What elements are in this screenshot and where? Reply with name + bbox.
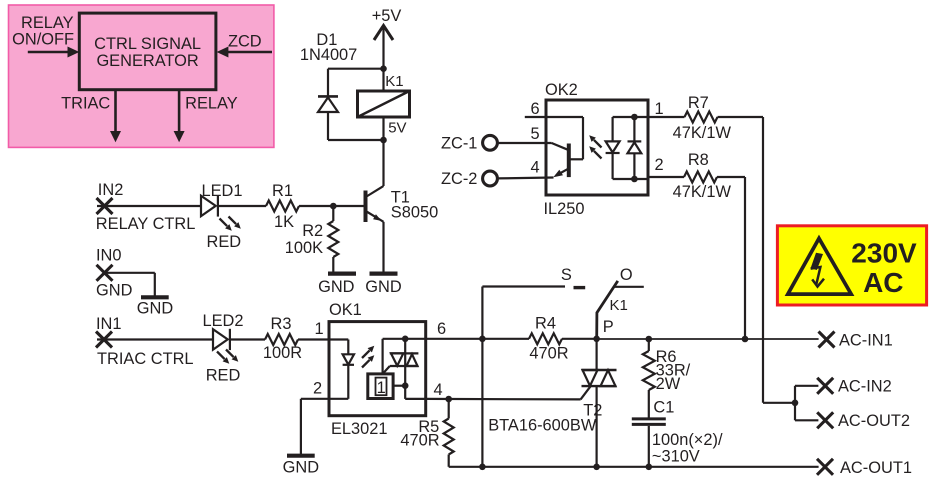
svg-text:O: O [620,266,633,284]
svg-text:230V: 230V [851,238,917,269]
svg-text:2: 2 [655,156,664,174]
svg-text:RED: RED [206,233,241,251]
svg-text:P: P [603,318,614,336]
svg-text:GND: GND [365,278,402,296]
svg-text:LED1: LED1 [201,182,242,200]
svg-text:AC-IN2: AC-IN2 [838,377,892,395]
svg-text:GND: GND [137,300,174,318]
svg-text:LED2: LED2 [202,312,243,330]
svg-text:~310V: ~310V [652,447,700,465]
svg-text:IN2: IN2 [98,181,124,199]
svg-text:ZC-2: ZC-2 [441,170,477,188]
svg-text:EL3021: EL3021 [331,420,388,438]
svg-text:S8050: S8050 [391,203,438,221]
svg-text:5: 5 [530,125,539,143]
svg-text:R1: R1 [272,182,293,200]
svg-text:AC-OUT1: AC-OUT1 [840,459,912,477]
svg-text:TRIAC CTRL: TRIAC CTRL [97,350,194,368]
svg-text:100K: 100K [285,239,323,257]
svg-text:R3: R3 [271,315,292,333]
svg-text:6: 6 [437,320,446,338]
svg-text:1K: 1K [274,213,294,231]
svg-text:K1: K1 [610,297,628,314]
svg-text:GENERATOR: GENERATOR [96,52,198,70]
svg-text:R8: R8 [688,151,709,169]
svg-text:GND: GND [318,278,355,296]
svg-text:ON/OFF: ON/OFF [12,31,74,49]
svg-text:2W: 2W [656,375,681,393]
svg-text:5V: 5V [388,119,406,136]
svg-text:BTA16-600BW: BTA16-600BW [488,417,597,435]
svg-text:RELAY: RELAY [185,94,238,112]
svg-text:OK2: OK2 [545,81,578,99]
svg-text:RELAY CTRL: RELAY CTRL [96,215,196,233]
svg-text:470R: 470R [529,345,568,363]
svg-text:4: 4 [530,159,539,177]
svg-text:RED: RED [206,367,241,385]
svg-text:47K/1W: 47K/1W [673,183,732,201]
svg-text:IN1: IN1 [96,315,122,333]
svg-text:C1: C1 [653,399,674,417]
svg-text:IN0: IN0 [96,246,122,264]
svg-text:1: 1 [314,320,323,338]
svg-text:47K/1W: 47K/1W [673,124,732,142]
svg-text:4: 4 [433,381,442,399]
svg-text:OK1: OK1 [329,301,362,319]
svg-text:TRIAC: TRIAC [61,94,110,112]
svg-text:S: S [561,266,572,284]
svg-text:R7: R7 [688,94,709,112]
svg-text:CTRL SIGNAL: CTRL SIGNAL [94,35,201,53]
svg-text:+5V: +5V [372,7,402,25]
svg-text:ZC-1: ZC-1 [441,135,477,153]
svg-text:1: 1 [655,100,664,118]
svg-text:AC: AC [863,267,903,298]
svg-text:IL250: IL250 [544,200,585,218]
svg-text:R2: R2 [302,222,323,240]
svg-text:2: 2 [313,380,322,398]
svg-text:1: 1 [377,379,386,397]
svg-text:RELAY: RELAY [21,14,74,32]
svg-text:K1: K1 [385,73,403,90]
svg-text:470R: 470R [400,432,439,450]
svg-text:AC-OUT2: AC-OUT2 [838,412,910,430]
svg-text:GND: GND [96,282,133,300]
svg-text:ZCD: ZCD [228,33,262,51]
svg-text:AC-IN1: AC-IN1 [839,331,893,349]
svg-text:R4: R4 [535,314,556,332]
svg-text:GND: GND [283,459,320,477]
svg-text:100R: 100R [263,344,302,362]
svg-text:6: 6 [530,100,539,118]
svg-text:1N4007: 1N4007 [300,46,357,64]
